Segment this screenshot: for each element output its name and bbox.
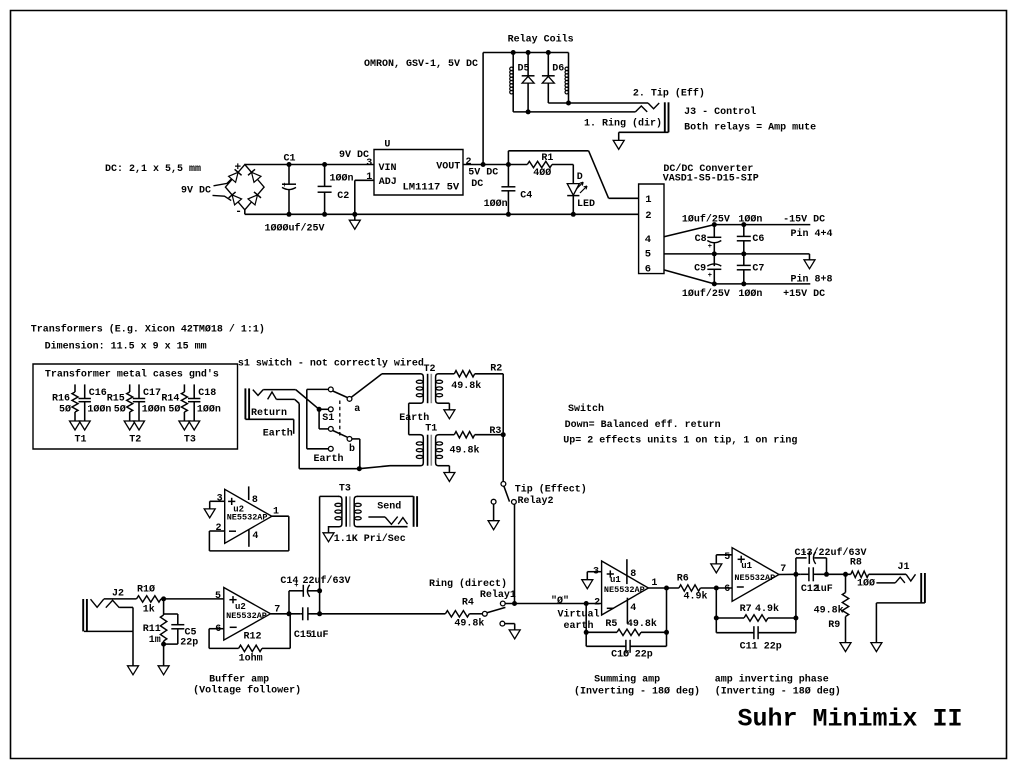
wire 5V up to relay rail xyxy=(483,50,568,165)
relay contact Relay2 xyxy=(491,482,516,521)
svg-text:49.8k: 49.8k xyxy=(454,618,484,630)
svg-text:"Ø": "Ø" xyxy=(551,595,569,607)
wire U1b pin5 to ground xyxy=(716,555,732,564)
svg-text:7: 7 xyxy=(780,564,786,575)
svg-text:Tip (Effect): Tip (Effect) xyxy=(515,484,587,496)
svg-text:R15: R15 xyxy=(107,394,125,405)
svg-text:-: - xyxy=(235,206,242,218)
label VASD1-S5-D15-SIP xyxy=(663,174,759,185)
resistor R6 4.9k xyxy=(677,574,732,603)
resistor R15 50 xyxy=(107,384,133,421)
resistor R14 50 xyxy=(161,384,187,421)
wire tip eff to J3 xyxy=(569,103,660,109)
label 1.1K Pri/Sec xyxy=(334,533,406,545)
svg-text:OMRON, GSV-1, 5V DC: OMRON, GSV-1, 5V DC xyxy=(364,59,478,70)
svg-text:J2: J2 xyxy=(112,588,124,599)
svg-text:5: 5 xyxy=(724,552,730,563)
svg-text:5: 5 xyxy=(215,591,221,602)
svg-text:VOUT: VOUT xyxy=(436,161,460,172)
svg-text:Down= Balanced eff. return: Down= Balanced eff. return xyxy=(565,419,721,431)
wire U1b feedback right xyxy=(795,574,797,632)
svg-text:4ØØ: 4ØØ xyxy=(533,167,551,179)
svg-text:T3: T3 xyxy=(339,483,351,494)
svg-text:R6: R6 xyxy=(677,574,689,585)
relay coil K1 xyxy=(510,53,514,112)
resistor R9 49.8k xyxy=(814,574,849,642)
svg-text:+: + xyxy=(235,162,242,174)
svg-text:R7: R7 xyxy=(740,604,752,615)
label amp inverting phase xyxy=(715,673,829,685)
svg-text:5Ø: 5Ø xyxy=(59,404,71,416)
label S1 xyxy=(322,413,334,424)
svg-text:R1Ø: R1Ø xyxy=(137,584,155,596)
svg-text:+: + xyxy=(708,243,712,251)
ground R11 xyxy=(158,666,169,675)
svg-text:Return: Return xyxy=(251,408,287,419)
label Pin 8+8 xyxy=(791,274,833,286)
svg-text:1Øuf/25V: 1Øuf/25V xyxy=(682,288,730,300)
capacitor C7 100n xyxy=(737,254,765,284)
svg-text:LED: LED xyxy=(577,199,595,210)
label 2. Tip (Eff) xyxy=(633,88,705,100)
wire 5V to DC/DC converter xyxy=(508,151,638,199)
op-amp U1 inverting xyxy=(732,548,779,602)
pin 7 U2b xyxy=(274,604,280,615)
pin 4 converter xyxy=(645,234,651,246)
svg-text:R12: R12 xyxy=(244,631,262,642)
svg-text:1uF: 1uF xyxy=(311,630,329,641)
wire return ring to bottom bus xyxy=(276,399,361,471)
svg-text:R5: R5 xyxy=(605,619,617,630)
svg-text:8: 8 xyxy=(252,495,258,506)
svg-text:Virtual: Virtual xyxy=(558,609,600,621)
pin 6 U2b xyxy=(215,624,221,635)
svg-text:Transformer metal cases gnd's: Transformer metal cases gnd's xyxy=(45,369,219,381)
value 100n lower xyxy=(738,288,762,300)
svg-text:-15V DC: -15V DC xyxy=(783,214,825,225)
svg-text:DC: 2,1 x 5,5 mm: DC: 2,1 x 5,5 mm xyxy=(105,164,201,175)
ground R9 xyxy=(840,643,851,652)
wire J3 sleeve to ground xyxy=(613,132,668,149)
svg-text:R1: R1 xyxy=(541,153,553,164)
pin 6 converter xyxy=(645,264,651,276)
value 100n C2 xyxy=(330,173,354,185)
svg-text:5Ø: 5Ø xyxy=(168,404,180,416)
pin 2 U2a xyxy=(216,523,222,534)
svg-text:6: 6 xyxy=(645,264,651,276)
label Switch xyxy=(568,403,604,415)
svg-text:4: 4 xyxy=(645,234,651,246)
wire U1b output xyxy=(779,572,801,621)
wire ground rail bottom xyxy=(245,210,639,215)
label 1. Ring (dir) xyxy=(584,118,662,130)
svg-text:1.1K Pri/Sec: 1.1K Pri/Sec xyxy=(334,533,406,545)
svg-text:3: 3 xyxy=(366,158,372,169)
ground J2 sleeve xyxy=(128,666,139,675)
label Up= 2 effects units xyxy=(563,434,797,446)
label Send xyxy=(377,501,401,513)
svg-text:D5: D5 xyxy=(518,64,530,75)
jack J3 xyxy=(665,102,669,132)
svg-text:22p: 22p xyxy=(635,649,653,660)
svg-text:R3: R3 xyxy=(489,426,501,437)
pin 8 U1a xyxy=(627,559,636,584)
label Return xyxy=(251,408,287,419)
svg-text:Buffer amp: Buffer amp xyxy=(209,673,269,685)
pin 2 U1a xyxy=(594,597,600,608)
svg-text:C17: C17 xyxy=(143,388,161,399)
wire U1a pin3 to ground xyxy=(587,572,601,580)
wire throw a to T2 xyxy=(351,374,420,398)
svg-text:4: 4 xyxy=(252,531,258,542)
ground T1 secondary xyxy=(444,466,455,482)
wire ring dir to J3 xyxy=(513,106,647,112)
label J1 xyxy=(898,562,910,573)
jack J Return xyxy=(245,388,276,419)
ground T1 cases xyxy=(70,421,91,430)
pin 1 converter xyxy=(645,194,651,206)
ground T2 secondary xyxy=(444,403,455,419)
svg-text:4: 4 xyxy=(630,603,636,614)
svg-text:C8: C8 xyxy=(695,234,707,245)
value 10uf/25V lower xyxy=(682,288,730,300)
capacitor C13 22uf/63V xyxy=(796,550,827,575)
svg-text:S1: S1 xyxy=(322,413,334,424)
wire U1a output xyxy=(648,586,679,591)
svg-text:3: 3 xyxy=(217,493,223,504)
svg-text:earth: earth xyxy=(564,620,594,632)
svg-text:D: D xyxy=(577,172,583,183)
svg-text:1. Ring (dir): 1. Ring (dir) xyxy=(584,118,662,130)
op-amp U1 summing xyxy=(602,561,649,615)
pin 5 U2b xyxy=(215,591,221,602)
svg-text:22p: 22p xyxy=(764,641,782,652)
svg-text:1m: 1m xyxy=(149,635,161,646)
label Down= Balanced eff. return xyxy=(565,419,721,431)
wire return tip to S1 poles xyxy=(263,390,328,429)
svg-text:1ohm: 1ohm xyxy=(239,653,263,665)
label C2 xyxy=(337,191,349,202)
svg-text:+15V DC: +15V DC xyxy=(783,289,825,300)
svg-text:1Øuf/25V: 1Øuf/25V xyxy=(682,213,730,225)
svg-text:NE5532AP: NE5532AP xyxy=(604,585,645,595)
label b xyxy=(349,443,355,455)
svg-text:D6: D6 xyxy=(552,64,564,75)
label Buffer amp xyxy=(209,673,269,685)
resistor R10 1k xyxy=(104,584,224,616)
label Transformer metal cases gnd's xyxy=(45,369,219,381)
svg-text:R11: R11 xyxy=(143,624,161,635)
pin 7 U1b xyxy=(780,564,786,575)
label Ring (direct) xyxy=(429,578,507,590)
svg-text:8: 8 xyxy=(630,569,636,580)
resistor R11 1m xyxy=(143,599,167,666)
svg-text:NE5532AP: NE5532AP xyxy=(734,573,775,583)
bridge rectifier BR1 xyxy=(225,162,264,218)
ground J1 sleeve xyxy=(871,643,882,652)
pin 3 U2a xyxy=(217,493,223,504)
label Transformers Xicon xyxy=(31,324,265,336)
svg-text:C1Ø: C1Ø xyxy=(611,648,629,660)
svg-text:2: 2 xyxy=(594,597,600,608)
svg-text:Suhr Minimix II: Suhr Minimix II xyxy=(738,705,963,734)
label Voltage follower xyxy=(193,685,301,697)
svg-text:Pin 8+8: Pin 8+8 xyxy=(791,274,833,286)
svg-text:C11: C11 xyxy=(740,641,758,652)
pin 2 VOUT xyxy=(466,157,472,168)
svg-text:C7: C7 xyxy=(752,263,764,274)
capacitor C8 10uf/25V xyxy=(695,225,722,254)
svg-text:1ØØØuf/25V: 1ØØØuf/25V xyxy=(265,223,325,235)
label Summing amp xyxy=(594,673,660,685)
svg-text:5V DC: 5V DC xyxy=(468,167,498,178)
wire U2a pin3 to ground xyxy=(210,501,225,509)
capacitor C14 22uf/63V xyxy=(280,575,350,614)
svg-text:NE5532AP: NE5532AP xyxy=(227,513,268,523)
regulator U LM1117 xyxy=(374,150,463,196)
label -15V DC xyxy=(783,214,825,225)
resistor R8 100 xyxy=(850,558,875,590)
wire 5V output rail xyxy=(463,162,527,167)
svg-text:C18: C18 xyxy=(198,388,216,399)
ground T2 cases xyxy=(124,421,144,430)
svg-text:T1: T1 xyxy=(425,424,437,435)
capacitor C4 100n xyxy=(484,165,533,217)
svg-text:C16: C16 xyxy=(89,388,107,399)
svg-text:R9: R9 xyxy=(828,620,840,631)
wire throw b to bottom bus xyxy=(352,439,360,469)
resistor R5 49.8k xyxy=(586,618,666,636)
wire 9V rail top xyxy=(245,164,374,166)
svg-text:Switch: Switch xyxy=(568,403,604,415)
label s1 switch note xyxy=(238,358,424,370)
svg-text:T2: T2 xyxy=(129,435,141,446)
svg-text:amp inverting phase: amp inverting phase xyxy=(715,673,829,685)
svg-text:a: a xyxy=(354,404,360,415)
svg-text:1ØØn: 1ØØn xyxy=(330,173,354,185)
wire J2 sleeve to ground xyxy=(84,607,133,665)
wire T3 primary down to output node xyxy=(317,496,322,616)
svg-text:1k: 1k xyxy=(143,603,155,615)
svg-text:U: U xyxy=(384,140,390,151)
capacitor C15 1uF xyxy=(294,607,329,641)
label T3 xyxy=(184,435,196,446)
svg-text:1: 1 xyxy=(645,194,651,206)
label OMRON GSV-1 5V DC xyxy=(364,59,478,70)
pin 1 U2a xyxy=(273,506,279,517)
capacitor C2 xyxy=(318,162,332,217)
svg-text:6: 6 xyxy=(724,584,730,595)
value 100n upper xyxy=(738,213,762,225)
svg-text:1ØØn: 1ØØn xyxy=(738,288,762,300)
svg-text:Up= 2 effects units 1 on tip,: Up= 2 effects units 1 on tip, 1 on ring xyxy=(563,434,797,446)
wire R3 junction down to relay2 xyxy=(502,435,504,482)
label U xyxy=(384,140,390,151)
ground T3 cases xyxy=(179,421,200,430)
relay contact Relay1 xyxy=(482,601,514,630)
label T2 xyxy=(424,364,436,375)
transformer T1 xyxy=(416,435,454,466)
svg-text:6: 6 xyxy=(215,624,221,635)
svg-text:NE5532AP: NE5532AP xyxy=(226,611,267,621)
svg-text:5: 5 xyxy=(645,248,651,260)
wire AC input hooks xyxy=(213,177,234,201)
svg-text:1ØØn: 1ØØn xyxy=(738,213,762,225)
svg-text:u1: u1 xyxy=(741,561,752,571)
label Earth S1 xyxy=(314,453,344,465)
ground U2a input xyxy=(204,509,215,518)
capacitor C5 22p xyxy=(164,614,199,649)
svg-text:1ØØn: 1ØØn xyxy=(484,198,508,210)
label Inverting 180 deg left xyxy=(574,685,700,697)
pin 5 converter xyxy=(645,248,651,260)
label a xyxy=(354,404,360,415)
ground relay2 NC xyxy=(488,521,499,530)
wire U2a feedback loop xyxy=(209,516,288,551)
svg-text:VASD1-S5-D15-SIP: VASD1-S5-D15-SIP xyxy=(663,174,759,185)
resistor R2 49.8k xyxy=(451,363,503,392)
svg-text:Summing amp: Summing amp xyxy=(594,673,660,685)
svg-text:R2: R2 xyxy=(490,363,502,374)
wire to R8 xyxy=(817,572,851,577)
svg-text:Earth: Earth xyxy=(314,453,344,465)
svg-text:22p: 22p xyxy=(180,638,198,649)
label Relay Coils xyxy=(508,33,574,45)
pin 4 U2a xyxy=(249,530,259,547)
svg-text:22uf/63V: 22uf/63V xyxy=(303,575,351,587)
svg-text:1ØØ: 1ØØ xyxy=(857,577,875,589)
svg-text:9V DC: 9V DC xyxy=(339,150,369,161)
svg-text:2. Tip (Eff): 2. Tip (Eff) xyxy=(633,88,705,100)
svg-text:1ØØn: 1ØØn xyxy=(142,404,166,416)
jack J2 xyxy=(83,599,133,631)
jack J1 xyxy=(869,573,925,603)
svg-text:+: + xyxy=(708,272,712,280)
pin 3 U1a xyxy=(593,567,599,578)
switch S1 xyxy=(328,387,352,451)
ground U1a input xyxy=(582,580,593,589)
label Inverting 180 deg right xyxy=(715,685,841,697)
wire U1b feedback left xyxy=(714,588,719,633)
capacitor C9 10uf/25V xyxy=(694,254,721,284)
svg-text:2: 2 xyxy=(645,210,651,222)
transformer metal cases box xyxy=(33,364,238,449)
svg-text:+: + xyxy=(282,182,286,190)
pin 2 converter xyxy=(645,210,651,222)
label C13/22uf/63V xyxy=(795,547,867,559)
wire R2 to R3 junction xyxy=(501,374,506,437)
label T3 xyxy=(339,483,351,494)
svg-text:Relay Coils: Relay Coils xyxy=(508,33,574,45)
relay coil K2 xyxy=(565,53,569,104)
pin 8 U2a xyxy=(249,486,258,506)
resistor R7 4.9k xyxy=(716,603,796,621)
capacitor C6 100n xyxy=(737,225,765,254)
svg-text:1: 1 xyxy=(366,172,372,183)
jack Send xyxy=(368,496,417,527)
label Relay2 xyxy=(518,495,554,507)
op-amp U2 buffer xyxy=(224,588,271,641)
wire pin5 common rail xyxy=(664,251,810,256)
label 9V DC at VIN xyxy=(339,150,369,161)
pin 6 U1b xyxy=(724,584,730,595)
label T1 xyxy=(75,435,87,446)
label DC plug size xyxy=(105,164,201,175)
label Earth return sleeve xyxy=(263,428,293,440)
label D LED xyxy=(577,172,595,210)
svg-text:Relay2: Relay2 xyxy=(518,495,554,507)
label +15V DC xyxy=(783,289,825,300)
svg-text:R14: R14 xyxy=(161,394,179,405)
capacitor C11 22p xyxy=(716,626,796,652)
svg-text:ADJ: ADJ xyxy=(379,177,397,188)
LED D xyxy=(567,165,587,217)
wire U2 buffer feedback xyxy=(209,629,239,649)
title Suhr Minimix II xyxy=(738,705,963,734)
wire pin6 to +15V rail xyxy=(664,270,810,287)
svg-text:C15: C15 xyxy=(294,630,312,641)
svg-text:C6: C6 xyxy=(752,234,764,245)
svg-text:J3 - Control: J3 - Control xyxy=(684,106,756,118)
ground at converter common xyxy=(804,254,815,269)
svg-text:C14: C14 xyxy=(280,576,298,587)
resistor R1 400 xyxy=(527,153,573,179)
transformer T3 xyxy=(320,496,414,532)
capacitor C18 100n xyxy=(188,384,221,421)
label Both relays = Amp mute xyxy=(684,122,816,134)
svg-text:Relay1: Relay1 xyxy=(480,589,516,601)
svg-text:2: 2 xyxy=(216,523,222,534)
label J2 xyxy=(112,588,124,599)
label Dimension xyxy=(45,341,207,353)
pin 3 VIN xyxy=(366,158,372,169)
svg-text:Ring (direct): Ring (direct) xyxy=(429,578,507,590)
wire return sleeve earth xyxy=(245,419,293,434)
wire ADJ to ground rail xyxy=(355,180,374,214)
svg-text:4.9k: 4.9k xyxy=(755,603,779,615)
value 1000uf/25V xyxy=(265,223,325,235)
wire output node to R4 xyxy=(311,613,446,615)
capacitor C16 100n xyxy=(79,384,112,421)
svg-text:T2: T2 xyxy=(424,364,436,375)
svg-text:DC: DC xyxy=(471,179,483,190)
label DC/DC Converter xyxy=(663,163,753,175)
svg-text:s1 switch - not correctly wire: s1 switch - not correctly wired xyxy=(238,358,424,370)
svg-text:49.8k: 49.8k xyxy=(451,380,481,392)
wire relay2 to relay1 node xyxy=(512,504,517,606)
svg-text:1uF: 1uF xyxy=(815,584,833,595)
svg-text:49.8k: 49.8k xyxy=(450,445,480,457)
svg-text:(Inverting - 18Ø deg): (Inverting - 18Ø deg) xyxy=(574,685,700,697)
diode D5 xyxy=(518,53,535,115)
svg-text:C4: C4 xyxy=(520,191,532,202)
svg-text:Dimension: 11.5 x 9 x 15 mm: Dimension: 11.5 x 9 x 15 mm xyxy=(45,341,207,353)
wire pin4 to -15V rail xyxy=(664,222,810,237)
wire bottom bus to T1 primary xyxy=(359,466,420,469)
svg-text:1ØØn: 1ØØn xyxy=(197,404,221,416)
svg-text:49.8k: 49.8k xyxy=(627,618,657,630)
svg-text:u1: u1 xyxy=(610,575,621,585)
label Relay1 xyxy=(480,589,516,601)
label J3 - Control xyxy=(684,106,756,118)
value 10uf/25V upper xyxy=(682,213,730,225)
wire J1 sleeve to ground xyxy=(876,603,925,643)
svg-text:(Inverting - 18Ø deg): (Inverting - 18Ø deg) xyxy=(715,685,841,697)
svg-text:C2: C2 xyxy=(337,191,349,202)
svg-text:4.9k: 4.9k xyxy=(684,591,708,603)
svg-text:R4: R4 xyxy=(462,598,474,609)
svg-text:5Ø: 5Ø xyxy=(114,404,126,416)
